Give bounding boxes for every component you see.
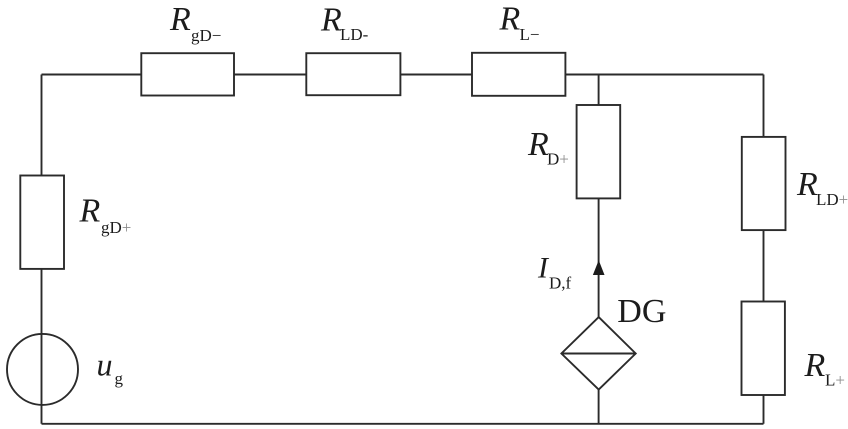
label ID,f bbox=[537, 251, 572, 292]
svg-text:R: R bbox=[527, 126, 549, 163]
svg-text:gD−: gD− bbox=[191, 26, 221, 45]
label RLD+ bbox=[796, 166, 848, 209]
svg-text:R: R bbox=[796, 166, 818, 203]
resistor RL- bbox=[472, 53, 565, 96]
label DG bbox=[617, 293, 666, 330]
label RD+ bbox=[527, 126, 569, 169]
svg-text:R: R bbox=[499, 0, 521, 37]
svg-text:R: R bbox=[79, 193, 101, 230]
svg-text:u: u bbox=[97, 346, 113, 382]
resistor RL+ bbox=[742, 302, 785, 396]
svg-text:R: R bbox=[320, 2, 342, 39]
wire: middle branch lower segment (diamond to bottom bus) bbox=[598, 390, 600, 424]
label RLD- bbox=[320, 2, 369, 45]
wire: right branch vertical bbox=[763, 75, 765, 424]
svg-text:g: g bbox=[115, 369, 124, 388]
dependent current source DG (diamond) bbox=[561, 317, 635, 390]
wire: middle branch upper segment bbox=[598, 75, 600, 318]
wire: top horizontal bus from node g to right branch bbox=[42, 74, 764, 76]
label RL+ bbox=[804, 347, 845, 390]
svg-text:L+: L+ bbox=[825, 371, 845, 390]
svg-text:DG: DG bbox=[617, 293, 666, 330]
svg-text:D+: D+ bbox=[547, 150, 569, 169]
svg-text:L−: L− bbox=[520, 25, 540, 44]
current arrow ID,f on middle branch bbox=[594, 262, 604, 275]
svg-text:gD+: gD+ bbox=[101, 218, 131, 237]
svg-text:LD+: LD+ bbox=[816, 190, 848, 209]
svg-text:R: R bbox=[169, 1, 191, 38]
label RL- bbox=[499, 0, 540, 44]
svg-text:LD-: LD- bbox=[340, 25, 369, 44]
resistor RgD+ bbox=[20, 176, 64, 269]
resistor RD+ bbox=[577, 105, 621, 198]
resistor RLD+ bbox=[742, 137, 786, 230]
svg-text:R: R bbox=[804, 347, 826, 384]
voltage source ug (circle) bbox=[7, 334, 78, 405]
wire: left branch vertical bbox=[41, 75, 43, 424]
resistor RgD- bbox=[141, 53, 234, 95]
wire: bottom horizontal bus bbox=[42, 423, 764, 425]
label RgD- bbox=[169, 1, 221, 45]
label ug bbox=[97, 346, 124, 388]
resistor RLD- bbox=[306, 53, 400, 95]
label RgD+ bbox=[79, 193, 132, 237]
svg-text:D,f: D,f bbox=[549, 274, 572, 293]
